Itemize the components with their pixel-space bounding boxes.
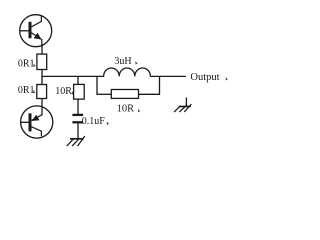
wire Q1 emitter to R1 xyxy=(41,44,43,54)
svg-text:0R1: 0R1 xyxy=(18,59,35,70)
label mark after 10R left xyxy=(72,92,73,94)
inductor L1 (3 humps) xyxy=(97,68,150,76)
node junction to main wire xyxy=(41,75,97,77)
wire branch left to R4 xyxy=(96,93,111,95)
wire C1 to ground xyxy=(77,123,79,138)
svg-text:10R: 10R xyxy=(55,86,72,97)
transistor Q2 emitter line xyxy=(32,115,42,121)
label mark after 10R bottom xyxy=(139,109,140,111)
wire L1 to output xyxy=(150,75,186,77)
label mark after 0.1uF xyxy=(107,122,108,124)
transistor Q1 collector line xyxy=(31,16,41,27)
label mark after 0R1 bottom xyxy=(34,90,35,92)
svg-text:Output: Output xyxy=(190,72,219,83)
wire R2 to Q2 emitter xyxy=(41,99,43,116)
transistor Q1 emitter line xyxy=(31,33,41,47)
transistor Q2 base line xyxy=(21,121,29,123)
transistor Q2 collector line xyxy=(31,127,41,137)
node right junction of parallel pair xyxy=(159,76,161,94)
wire R3 to capacitor C1 xyxy=(77,99,79,114)
wire R1 to junction xyxy=(41,70,43,85)
resistor R3 box (10R vertical) xyxy=(74,84,85,99)
ground symbol (left, below C1) xyxy=(67,136,85,146)
resistor R4 box (10R horizontal) xyxy=(111,90,138,99)
svg-text:0R1: 0R1 xyxy=(18,85,35,96)
node left junction of L1/R4 parallel pair xyxy=(96,76,98,94)
label mark after 0R1 top xyxy=(34,64,35,66)
capacitor C1 top plate xyxy=(72,114,83,116)
label mark after Output xyxy=(226,77,227,79)
wire R4 to branch right xyxy=(139,93,161,95)
svg-text:10R: 10R xyxy=(117,104,135,115)
resistor R2 box (0R1 bottom) xyxy=(37,85,47,99)
svg-text:3uH: 3uH xyxy=(114,56,131,67)
svg-text:0.1uF: 0.1uF xyxy=(82,116,106,127)
transistor Q1 (NPN, top) circle xyxy=(20,15,52,47)
label mark after 3uH xyxy=(136,62,137,64)
transistor Q2 emitter arrow (points to base bar) xyxy=(31,115,39,121)
capacitor C1 bottom plate xyxy=(72,121,83,123)
transistor Q2 base bar xyxy=(29,113,32,131)
transistor Q1 emitter arrow xyxy=(34,33,42,40)
transistor Q1 base bar xyxy=(29,22,32,39)
resistor R3 stub from main wire xyxy=(77,76,79,84)
transistor Q1 base line xyxy=(20,30,28,32)
ground symbol (right, floating) xyxy=(174,98,191,113)
transistor Q2 (PNP, bottom) circle xyxy=(21,106,53,138)
resistor R1 box (0R1 top) xyxy=(37,54,47,69)
